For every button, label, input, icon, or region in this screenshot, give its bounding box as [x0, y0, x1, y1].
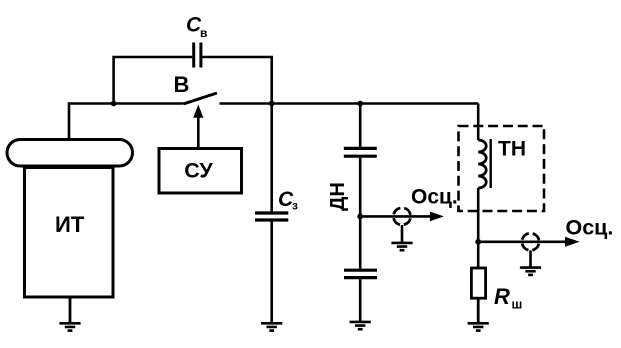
svg-text:ТН: ТН [498, 137, 526, 160]
svg-text:Осц.: Осц. [566, 216, 614, 240]
svg-text:ш: ш [512, 297, 523, 312]
svg-text:Осц.: Осц. [411, 185, 458, 208]
svg-text:В: В [174, 72, 190, 97]
svg-text:з: з [292, 199, 298, 213]
svg-text:ИТ: ИТ [55, 212, 85, 237]
svg-text:ДН: ДН [327, 182, 349, 211]
svg-text:СУ: СУ [184, 159, 213, 183]
svg-text:R: R [494, 284, 510, 309]
svg-text:в: в [200, 26, 207, 40]
